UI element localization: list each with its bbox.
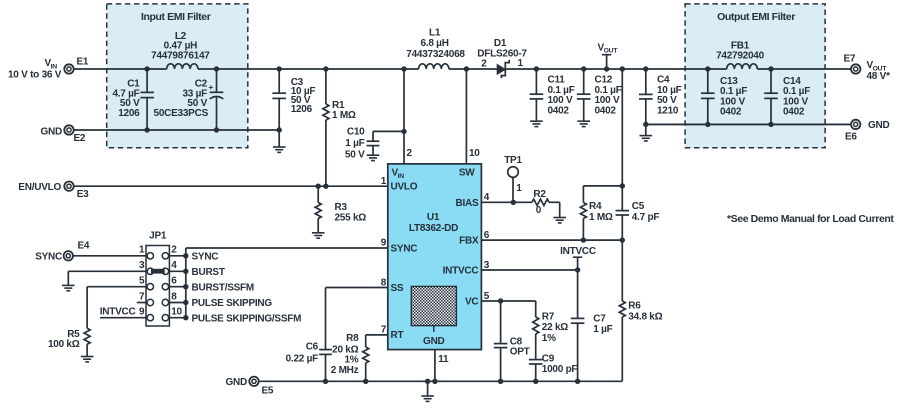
svg-text:E5: E5 bbox=[262, 386, 274, 397]
svg-text:2: 2 bbox=[407, 148, 413, 159]
svg-text:48 V*: 48 V* bbox=[867, 71, 891, 82]
svg-text:6: 6 bbox=[484, 230, 490, 241]
svg-text:GND: GND bbox=[41, 127, 63, 138]
svg-text:C5: C5 bbox=[632, 201, 645, 212]
svg-text:74479876147: 74479876147 bbox=[151, 50, 210, 61]
svg-text:2: 2 bbox=[171, 245, 177, 256]
svg-text:GND: GND bbox=[423, 336, 445, 347]
svg-text:DFLS260-7: DFLS260-7 bbox=[477, 49, 527, 60]
svg-text:1%: 1% bbox=[542, 333, 556, 344]
svg-text:10 V to 36 V: 10 V to 36 V bbox=[8, 69, 62, 80]
svg-text:9: 9 bbox=[139, 307, 145, 318]
svg-text:74437324068: 74437324068 bbox=[406, 49, 465, 60]
svg-text:Input EMI Filter: Input EMI Filter bbox=[141, 11, 211, 23]
svg-text:E6: E6 bbox=[845, 132, 857, 143]
svg-text:50 V: 50 V bbox=[345, 150, 365, 161]
svg-text:4.7 pF: 4.7 pF bbox=[632, 212, 660, 223]
svg-text:OPT: OPT bbox=[510, 347, 530, 358]
svg-text:R8: R8 bbox=[346, 333, 359, 344]
svg-text:7: 7 bbox=[139, 291, 145, 302]
svg-text:E3: E3 bbox=[77, 189, 89, 200]
svg-text:BURST/SSFM: BURST/SSFM bbox=[192, 282, 255, 293]
svg-text:SW: SW bbox=[459, 168, 475, 179]
svg-text:22 kΩ: 22 kΩ bbox=[542, 322, 568, 333]
svg-text:E1: E1 bbox=[77, 57, 89, 68]
svg-text:11: 11 bbox=[438, 354, 449, 365]
svg-text:R4: R4 bbox=[589, 201, 602, 212]
svg-text:SYNC: SYNC bbox=[35, 251, 62, 262]
svg-text:1 MΩ: 1 MΩ bbox=[332, 110, 356, 121]
svg-text:3: 3 bbox=[139, 260, 145, 271]
svg-text:FBX: FBX bbox=[459, 236, 479, 247]
svg-text:2 MHz: 2 MHz bbox=[331, 365, 359, 376]
svg-text:0402: 0402 bbox=[720, 107, 742, 118]
svg-text:0402: 0402 bbox=[548, 105, 570, 116]
svg-text:1: 1 bbox=[518, 58, 524, 69]
svg-text:1 MΩ: 1 MΩ bbox=[589, 212, 613, 223]
svg-text:PULSE SKIPPING/SSFM: PULSE SKIPPING/SSFM bbox=[192, 313, 302, 324]
svg-text:LT8362-DD: LT8362-DD bbox=[409, 223, 458, 234]
svg-text:1 µF: 1 µF bbox=[593, 324, 612, 335]
svg-text:7: 7 bbox=[381, 325, 387, 336]
svg-text:9: 9 bbox=[381, 237, 387, 248]
svg-text:10: 10 bbox=[171, 307, 182, 318]
svg-text:8: 8 bbox=[171, 291, 177, 302]
svg-text:IN: IN bbox=[398, 173, 405, 180]
svg-text:TP1: TP1 bbox=[504, 155, 522, 166]
svg-text:GND: GND bbox=[868, 120, 890, 131]
svg-text:50CE33PCS: 50CE33PCS bbox=[154, 108, 209, 119]
svg-text:4: 4 bbox=[484, 192, 490, 203]
svg-text:*See Demo Manual for Load Curr: *See Demo Manual for Load Current bbox=[727, 213, 894, 225]
svg-text:34.8 kΩ: 34.8 kΩ bbox=[628, 312, 662, 323]
svg-text:U1: U1 bbox=[427, 212, 440, 223]
svg-text:JP1: JP1 bbox=[149, 231, 167, 242]
svg-text:1206: 1206 bbox=[291, 104, 313, 115]
svg-text:BURST: BURST bbox=[192, 267, 225, 278]
svg-text:C6: C6 bbox=[306, 342, 319, 353]
svg-text:742792040: 742792040 bbox=[716, 50, 764, 61]
svg-text:INTVCC: INTVCC bbox=[560, 246, 596, 257]
svg-text:VC: VC bbox=[465, 297, 478, 308]
svg-text:INTVCC: INTVCC bbox=[443, 266, 479, 277]
svg-text:E2: E2 bbox=[74, 133, 86, 144]
svg-text:6: 6 bbox=[171, 276, 177, 287]
svg-text:1: 1 bbox=[139, 245, 145, 256]
svg-text:1210: 1210 bbox=[657, 105, 679, 116]
svg-text:1000 pF: 1000 pF bbox=[542, 364, 578, 375]
svg-text:L1: L1 bbox=[429, 28, 441, 39]
svg-text:EN/UVLO: EN/UVLO bbox=[18, 182, 61, 193]
svg-text:1206: 1206 bbox=[118, 108, 140, 119]
svg-text:PULSE SKIPPING: PULSE SKIPPING bbox=[192, 298, 273, 309]
svg-text:10: 10 bbox=[469, 148, 480, 159]
svg-text:R2: R2 bbox=[533, 189, 546, 200]
svg-text:INTVCC: INTVCC bbox=[100, 306, 136, 317]
svg-text:2: 2 bbox=[481, 59, 487, 70]
svg-text:0.22 µF: 0.22 µF bbox=[286, 353, 319, 364]
svg-text:0: 0 bbox=[536, 205, 542, 216]
svg-text:E4: E4 bbox=[78, 241, 90, 252]
svg-text:Output EMI Filter: Output EMI Filter bbox=[717, 11, 795, 23]
svg-text:UVLO: UVLO bbox=[391, 181, 418, 192]
svg-text:OUT: OUT bbox=[604, 48, 619, 55]
svg-text:SS: SS bbox=[391, 283, 404, 294]
svg-text:D1: D1 bbox=[494, 38, 507, 49]
svg-text:E7: E7 bbox=[844, 54, 856, 65]
svg-text:BIAS: BIAS bbox=[455, 198, 478, 209]
svg-text:255 kΩ: 255 kΩ bbox=[335, 213, 367, 224]
svg-text:SYNC: SYNC bbox=[391, 243, 418, 254]
svg-text:RT: RT bbox=[391, 330, 404, 341]
svg-text:GND: GND bbox=[226, 377, 248, 388]
svg-text:R6: R6 bbox=[628, 301, 641, 312]
svg-text:5: 5 bbox=[139, 276, 145, 287]
svg-text:0402: 0402 bbox=[595, 105, 617, 116]
svg-text:100 kΩ: 100 kΩ bbox=[48, 339, 80, 350]
svg-text:0402: 0402 bbox=[783, 107, 805, 118]
svg-text:4: 4 bbox=[171, 260, 177, 271]
svg-text:6.8 µH: 6.8 µH bbox=[421, 38, 449, 49]
svg-text:+: + bbox=[208, 82, 213, 92]
svg-text:1 µF: 1 µF bbox=[345, 138, 364, 149]
svg-text:1: 1 bbox=[516, 183, 522, 194]
svg-text:1: 1 bbox=[381, 176, 387, 187]
svg-text:SYNC: SYNC bbox=[192, 251, 219, 262]
svg-text:C10: C10 bbox=[347, 127, 365, 138]
